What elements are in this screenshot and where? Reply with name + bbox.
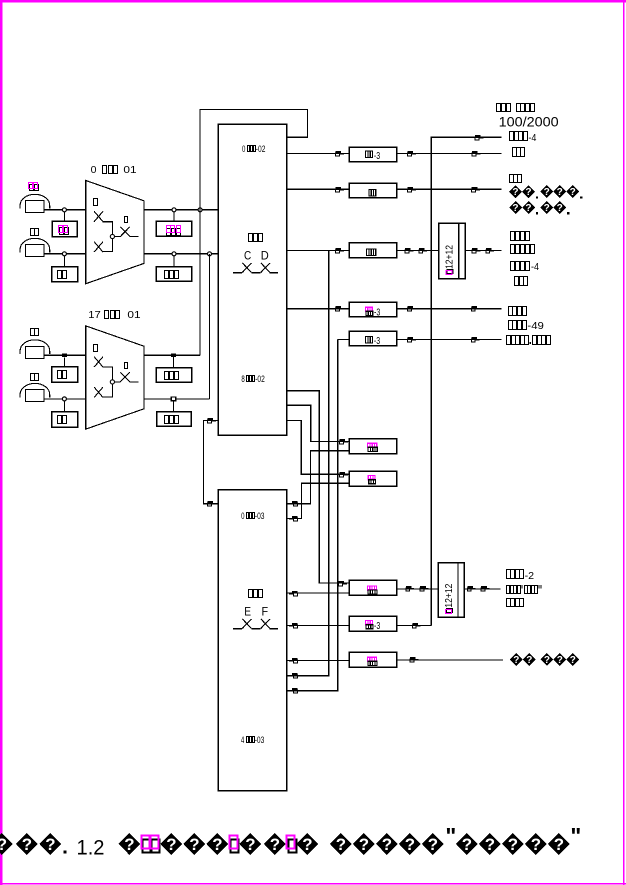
node n2 (junction) — [62, 252, 66, 256]
wire Z4 to terminal 4 — [397, 308, 502, 310]
arrow into U2 stub — [289, 658, 297, 663]
svg-text:4: 4 — [241, 735, 244, 745]
net label: tofu-49 (terminal 4b) — [509, 320, 545, 332]
svg-text:01: 01 — [123, 164, 136, 176]
box VCh-PRM (right of A1, magenta) — [156, 221, 192, 236]
node n9 (solid junction) — [171, 354, 176, 358]
net label: tofu.tofu (terminal 5) — [507, 336, 551, 345]
box PRM (lower right of A1) — [156, 267, 192, 281]
arrow a1 — [408, 151, 416, 156]
wire n5 down to box VCh-PRM — [173, 212, 175, 221]
arrow a16 — [481, 586, 489, 591]
label for TA2 (tofu) — [31, 229, 39, 236]
U2 bottom label 4...-03 — [241, 735, 264, 745]
riser v2: from Z3 input wire down to U2 — [287, 250, 329, 675]
wire A2 out upper to riser — [144, 354, 200, 356]
net label: tofu'tofu" (PSU2 terminal b) — [507, 585, 542, 593]
wire U1 lower out A to Z8 (riser v1) — [287, 391, 350, 583]
svg-text:-3: -3 — [374, 620, 380, 632]
arrow a7 — [472, 248, 480, 253]
net label: header tofu row — [497, 104, 535, 112]
wire Z9 out to bus bottom — [397, 624, 432, 626]
label for TA4 (tofu) — [31, 374, 39, 381]
node n3 (solid junction) — [62, 354, 67, 358]
arrow a8 — [486, 248, 494, 253]
riser wire from A2 lower output up to U1 input wire — [209, 254, 211, 399]
wire Z2 to terminal 2 — [397, 188, 502, 190]
net label: tofu row (PSU1 terminal b) — [511, 245, 535, 254]
wire n2 down to box PK — [63, 256, 65, 267]
label for TA3 (tofu) — [31, 329, 39, 336]
filter Z6 (magenta) — [349, 439, 396, 454]
node n7 (box stub junction) — [172, 252, 176, 256]
svg-text:-3: -3 — [374, 150, 380, 162]
box VCh-PR (left of A1, magenta) — [52, 221, 77, 237]
wire Z7 tap down into U2 — [287, 483, 350, 518]
telephone set TA1 — [20, 194, 50, 208]
wire Z3 to power unit PSU1 — [397, 249, 439, 251]
wire TA3 to A2 — [44, 354, 86, 356]
Z6 label tofu (4, magenta) — [367, 443, 378, 452]
PSU2 rotated label B12+12 — [443, 583, 455, 613]
arrow into Z6 — [340, 439, 348, 444]
arrow into U2 (stub 4) — [289, 673, 297, 678]
arrow into U2 (stub 1) — [289, 501, 297, 506]
arrow a10 — [471, 306, 479, 311]
telephone set TA3 — [20, 340, 50, 354]
wire U1 lower out C to Z7 (riser v5) — [287, 421, 350, 475]
svg-text:-49: -49 — [527, 320, 544, 332]
wire PSU2 to terminal — [464, 588, 500, 590]
svg-text:-03: -03 — [255, 511, 265, 521]
U2 top label 0...-03 — [241, 511, 264, 521]
svg-text:C: C — [244, 251, 251, 263]
filter Z1 (...-3) — [349, 147, 396, 162]
telephone set TA2 — [20, 238, 50, 252]
wire n10 down to box (right of A2 lower) — [173, 401, 175, 412]
svg-text:D: D — [261, 251, 269, 263]
box right of A2 lower — [157, 412, 192, 427]
arrow into U2 stub 3 — [289, 591, 297, 596]
filter Z3 — [349, 243, 396, 258]
arrow a5 — [405, 248, 413, 253]
arrow a9 — [408, 306, 416, 311]
wire Z1 to terminal 1 — [397, 153, 502, 155]
arrow a2 — [472, 151, 480, 156]
U2 E F channel letters — [244, 607, 268, 619]
arrow a11 — [408, 337, 416, 342]
box right of A2 upper — [156, 368, 191, 383]
svg-text:-4: -4 — [528, 132, 536, 144]
label: 17 PER 01 (title of A2) — [88, 309, 140, 321]
box PK (lower left of A1) — [52, 267, 78, 282]
arrow into Z2 — [336, 187, 344, 192]
svg-text:-4: -4 — [531, 261, 539, 273]
net label: replacement diamonds row 2 — [509, 201, 522, 214]
Z10 label tofu (4, magenta) — [367, 657, 378, 666]
arrow a15 — [467, 586, 475, 591]
box left of A2 lower — [52, 412, 78, 428]
arrow into Z8 — [339, 581, 347, 586]
svg-text:0: 0 — [241, 511, 244, 521]
wire U1 lower out B to Z6 (riser v4) — [287, 405, 350, 441]
wire PSU1 to terminal 3 — [465, 249, 502, 251]
label: 0 PER 01 (title of A1) — [91, 164, 137, 176]
filter Z8 (magenta) — [349, 580, 396, 595]
net label: tofu (terminal 1) — [513, 148, 525, 157]
net label: tofu-4 (PSU1 terminal c) — [511, 261, 540, 273]
U2 E/F switch symbol (X X) — [233, 619, 278, 629]
label VCh (magenta tofu) for TA1 — [29, 183, 39, 191]
PSU1 rotated label B12+12 — [444, 245, 456, 275]
filter Z5 (...-3) — [349, 331, 396, 346]
wire A2 out lower to riser — [144, 398, 210, 400]
node n10 (open square junction) — [171, 397, 175, 401]
wire TA4 to A2 — [44, 398, 86, 400]
svg-text:1.2: 1.2 — [77, 836, 105, 859]
Z4 label — [365, 306, 381, 318]
wire U1 out 4 — [287, 308, 350, 310]
svg-text:12+12: 12+12 — [444, 245, 456, 269]
svg-text:8: 8 — [241, 374, 244, 384]
U1 C D channel letters — [244, 251, 269, 263]
svg-text:17: 17 — [88, 309, 101, 321]
wire Z8 tap into U2 (stub 3) — [287, 592, 350, 594]
wire n9 down to box (right of A2) — [173, 357, 175, 367]
arrow a6 — [419, 248, 427, 253]
arrow a18 — [410, 657, 418, 662]
channel amplifier unit A2 (trapezoid) — [86, 326, 144, 429]
svg-text:-3: -3 — [374, 335, 380, 347]
wire Z10 left into U2 (stub) — [287, 660, 350, 662]
block U1 (0...-02 / 8...-02) — [218, 124, 286, 435]
block U2 (0...-03 / 4...-03) — [218, 490, 286, 791]
net label: tofu (terminal 2 row a) — [510, 175, 522, 183]
wire U1 out 1 — [287, 153, 350, 155]
arrow into U2 (stub 5) — [289, 688, 297, 693]
U1 mid tofu label — [249, 234, 263, 242]
net label: replacement diamonds row 1 — [509, 185, 522, 198]
wire Z5 to terminal 5 — [397, 338, 502, 340]
wire n7 down to box PRM — [173, 256, 175, 267]
wire Z10 out to terminal (diamonds row) — [397, 659, 504, 661]
arrow a3 — [408, 187, 416, 192]
wire shared left input into U1 and U2 — [204, 421, 219, 504]
arrow into Z7 — [340, 472, 348, 477]
power unit PSU1 (B12+12) — [439, 223, 465, 279]
net label: tofu row (terminal 4a) — [509, 307, 527, 316]
arrow into U2 stub — [289, 623, 297, 628]
svg-text:12+12: 12+12 — [443, 583, 455, 607]
U2 mid tofu label — [249, 590, 263, 598]
wire n1 down to box VCh-PR — [63, 212, 65, 221]
wire Z9 left into U2 (stub) — [287, 624, 350, 626]
svg-text:": " — [445, 823, 456, 849]
riser v3: from Z5 input down to U2 — [287, 339, 338, 690]
wire TA2 to A1 — [44, 253, 86, 255]
svg-text:-03: -03 — [255, 735, 265, 745]
wire U1 out 3 — [287, 249, 350, 251]
wire A1 out upper to U1 — [144, 209, 218, 211]
Z7 label tofu (3, magenta) — [368, 475, 377, 484]
svg-text:": " — [570, 823, 581, 849]
wire A1 out lower to U1 — [144, 253, 218, 255]
svg-text:-02: -02 — [256, 144, 266, 154]
page border frame — [0, 0, 626, 2]
svg-text:F: F — [262, 607, 269, 619]
wire U1 out 2 — [287, 188, 350, 190]
net label: tofu-4 (terminal of bus) — [510, 132, 537, 145]
svg-text:01: 01 — [127, 309, 140, 321]
svg-text:-3: -3 — [374, 306, 380, 318]
arrow a12 — [471, 337, 479, 342]
riser wire from A2 upper output up to feedback loop — [200, 109, 307, 355]
node n4 (junction) — [62, 397, 66, 401]
wire Z6 tap down into U2 — [287, 451, 350, 504]
svg-text:E: E — [244, 607, 251, 619]
svg-text:100/2000: 100/2000 — [499, 114, 559, 129]
arrow into U2 left — [208, 501, 216, 506]
U1 C/D switch symbol (X X) — [233, 263, 278, 273]
arrow into Z4 — [336, 306, 344, 311]
wire Z8 out to power unit PSU2 — [397, 588, 439, 590]
net label: tofu-2 (PSU2 terminal a) — [507, 570, 535, 582]
telephone set TA4 — [20, 383, 50, 397]
channel amplifier unit A1 (trapezoid) — [86, 181, 144, 284]
filter Z10 (magenta) — [349, 652, 396, 667]
filter Z4 (magenta tofu-3) — [349, 302, 396, 316]
arrow a17 — [412, 623, 420, 628]
svg-text:0: 0 — [242, 144, 245, 154]
U1 bottom label 8...-02 — [241, 374, 264, 384]
node n8 (riser T junction) — [208, 252, 212, 256]
Z2 label tofu — [368, 189, 376, 197]
wire n3 down to box (left of A2) — [63, 357, 65, 366]
A2 internal switching symbols — [94, 345, 139, 398]
net label: tofu (PSU1 terminal d) — [515, 277, 528, 286]
arrow on bus top wire — [475, 135, 483, 140]
svg-text:-2: -2 — [525, 570, 535, 582]
U1 top label 0...-02 — [242, 144, 265, 154]
caption: fig 1.2 line with replacement chars — [0, 823, 581, 859]
filter Z7 (magenta) — [349, 471, 396, 486]
net label: replacement diamonds (Z10 terminal) — [510, 653, 523, 666]
net label: tofu (PSU2 terminal c) — [507, 599, 524, 607]
node n1 (junction) — [62, 208, 66, 212]
arrow into Z3 — [336, 248, 344, 253]
box left of A2 upper — [52, 367, 78, 383]
power unit PSU2 (B12+12) — [438, 563, 464, 618]
arrow into Z1 — [336, 151, 344, 156]
node n5 (box stub junction) — [172, 208, 176, 212]
svg-text:-02: -02 — [255, 374, 265, 384]
arrow a13 — [406, 586, 414, 591]
Z1 label tofu-3 — [365, 150, 380, 162]
filter Z2 — [349, 183, 396, 198]
wire n4 down to box (left of A2 lower) — [63, 401, 65, 412]
arrow into U1 left — [208, 418, 216, 423]
node n6 (crossing circle on riser) — [198, 208, 202, 212]
Z9 label — [365, 620, 380, 632]
bus riser (right distribution line) — [431, 137, 501, 625]
Z5 label — [365, 335, 380, 347]
arrow a14 — [420, 586, 428, 591]
wire TA1 to A1 — [44, 209, 86, 211]
filter Z9 (...-3 magenta) — [349, 616, 396, 631]
arrow a4 — [472, 187, 480, 192]
svg-text:0: 0 — [91, 164, 97, 176]
Z3 label tofu (4) — [366, 248, 376, 256]
wire into Z5 from riser v3 — [338, 338, 350, 340]
A1 internal switching symbols — [94, 199, 139, 253]
net label: tofu row (PSU1 terminal a) — [511, 232, 530, 241]
Z8 label tofu (4, magenta) — [367, 585, 378, 594]
arrow into U2 (stub 2) — [289, 516, 297, 521]
